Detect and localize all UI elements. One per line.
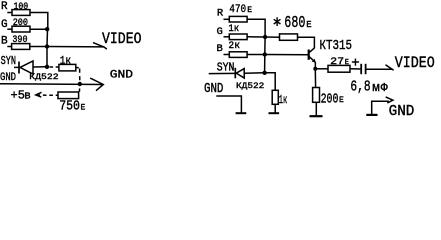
- wire resistor 200 to bus: [30, 28, 47, 30]
- wire bus segment G to B: [46, 29, 49, 46]
- wire SYN input to diode: [209, 72, 236, 74]
- wire resistor 1k to ground: [274, 104, 276, 113]
- svg-text:Ф: Ф: [381, 82, 388, 95]
- wire resistor 1k to bus: [247, 36, 265, 38]
- junction diode node: [45, 65, 49, 69]
- wire B input to resistor: [7, 46, 11, 48]
- svg-text:КД522: КД522: [236, 81, 264, 91]
- resistor 1k body: [59, 64, 76, 71]
- wire bus segment G to B: [264, 37, 266, 55]
- svg-text:GND: GND: [389, 104, 415, 120]
- resistor 750 body: [58, 92, 79, 99]
- junction G node on bus: [263, 35, 267, 39]
- wire dashed diode node to resistor 1k: [50, 66, 59, 68]
- capacitor C1 left plate: [360, 64, 362, 74]
- wire ground rail: [0, 83, 103, 86]
- transistor emitter stroke: [309, 56, 316, 62]
- wire capacitor to video arrow: [367, 68, 393, 70]
- svg-text:G: G: [1, 19, 8, 31]
- wire resistor 2k to bus: [247, 54, 265, 56]
- wire resistor 100 to bus corner: [30, 13, 48, 30]
- svg-text:1к: 1к: [60, 56, 71, 68]
- svg-text:E: E: [81, 104, 86, 113]
- resistor 27 body: [328, 65, 350, 72]
- ground bar under resistor 200: [310, 115, 323, 117]
- arrow head video output right: [386, 65, 394, 70]
- svg-text:2к: 2к: [228, 40, 240, 52]
- svg-text:GND: GND: [204, 82, 223, 97]
- wire GND label to ground symbol: [216, 96, 241, 113]
- diode VD2 KD522 cathode bar: [234, 68, 236, 79]
- resistor 680 body: [280, 34, 298, 40]
- ground bar under resistor 1k: [269, 112, 280, 114]
- svg-text:680: 680: [284, 13, 305, 32]
- wire diode junction to 1k drop corner: [265, 73, 276, 91]
- wire resistor 27 to capacitor: [350, 68, 360, 70]
- wire emitter down to junction: [314, 62, 316, 69]
- diode VD2 KD522 triangle: [236, 69, 244, 78]
- resistor 200 body (vertical): [313, 88, 320, 103]
- svg-text:B: B: [1, 36, 8, 48]
- wire diode to bus junction right: [244, 72, 264, 74]
- arrow head ground output right: [386, 97, 393, 103]
- junction diode node right: [262, 71, 266, 75]
- resistor 100 body: [12, 10, 30, 16]
- wire resistor 390 to bus: [30, 46, 47, 48]
- resistor 470 body: [229, 16, 247, 22]
- wire B input to resistor 2k: [224, 54, 230, 56]
- svg-text:200: 200: [321, 92, 339, 107]
- wire R input to resistor: [7, 12, 12, 14]
- wire G input to resistor 1k: [224, 36, 230, 38]
- wire video output line: [47, 46, 104, 48]
- junction B node on bus: [263, 52, 267, 56]
- svg-text:6,8: 6,8: [350, 79, 370, 96]
- wire SYN input to diode: [14, 66, 19, 68]
- selected-value asterisk mark: [274, 17, 281, 26]
- svg-text:R: R: [1, 1, 8, 13]
- svg-text:B: B: [217, 43, 223, 55]
- svg-text:1к: 1к: [279, 93, 288, 107]
- wire diode to bus junction: [33, 66, 47, 68]
- ground bar below GND label: [236, 112, 247, 114]
- wire dashed vertical 1k to ground rail: [79, 69, 81, 83]
- resistor 1k (SYN load) body vertical: [272, 90, 278, 104]
- resistor 200 body: [12, 26, 30, 32]
- svg-text:E: E: [339, 96, 344, 105]
- transistor emitter arrow head: [312, 59, 316, 63]
- svg-text:E: E: [306, 20, 311, 30]
- transistor VT1 KT315 base bar: [308, 50, 310, 60]
- wire bus segment B to diode junction: [46, 47, 48, 67]
- svg-text:+: +: [351, 55, 359, 71]
- wire resistor 200 to ground: [315, 102, 317, 115]
- wire resistor 680 to collector drop: [298, 37, 315, 48]
- wire bus to resistor 680: [265, 36, 279, 38]
- arrow head video output: [93, 43, 107, 50]
- svg-text:м: м: [372, 81, 380, 95]
- wire emitter junction down to resistor 200: [314, 69, 316, 88]
- svg-text:R: R: [217, 7, 224, 19]
- svg-text:в: в: [24, 90, 31, 102]
- svg-text:+5: +5: [11, 88, 25, 102]
- wire dashed resistor 1k to down-drop: [76, 67, 80, 69]
- resistor 1k (G) body: [229, 34, 247, 40]
- ground symbol far right bar: [366, 114, 377, 116]
- wire G input to resistor: [7, 28, 12, 30]
- arrow head ground output: [90, 78, 103, 91]
- wire base lead from bus to transistor: [265, 54, 308, 56]
- svg-text:200: 200: [13, 17, 28, 29]
- svg-text:GND: GND: [110, 70, 134, 82]
- diode VD1 KD522 cathode bar: [18, 62, 20, 74]
- svg-text:КТ315: КТ315: [320, 38, 353, 54]
- junction ground rail bias tap: [78, 82, 82, 86]
- wire emitter junction to resistor 27: [315, 68, 328, 70]
- svg-text:750: 750: [59, 99, 80, 115]
- wire bus segment B to diode junction: [264, 55, 266, 73]
- junction G on bus: [45, 27, 49, 31]
- wire dashed resistor 750 up to ground rail junction: [78, 86, 80, 92]
- svg-text:GND: GND: [0, 72, 16, 84]
- svg-text:VIDEO: VIDEO: [395, 54, 435, 72]
- transistor collector stroke: [309, 48, 315, 53]
- resistor 2k body: [229, 52, 247, 58]
- svg-text:SYN: SYN: [1, 54, 16, 68]
- diode VD1 KD522 triangle: [20, 61, 33, 74]
- svg-text:G: G: [217, 26, 223, 38]
- wire dashed +5V arrow to resistor 750: [37, 94, 59, 96]
- capacitor C1 right plate: [365, 64, 367, 74]
- svg-text:VIDEO: VIDEO: [102, 30, 142, 48]
- wire ground far right up and to arrow: [372, 101, 389, 115]
- junction emitter node: [313, 67, 317, 71]
- svg-text:390: 390: [12, 34, 27, 46]
- junction B on bus (video tap): [45, 44, 49, 48]
- svg-text:КД522: КД522: [29, 72, 58, 82]
- svg-text:E: E: [247, 6, 252, 15]
- wire resistor 470 to bus corner: [247, 19, 265, 37]
- svg-text:27: 27: [330, 57, 344, 68]
- resistor 390 body: [12, 44, 30, 50]
- arrow head +5V (points left): [36, 92, 42, 97]
- svg-text:470: 470: [229, 4, 246, 16]
- svg-text:SYN: SYN: [217, 61, 235, 74]
- svg-text:100: 100: [14, 1, 29, 13]
- wire R input to resistor 470: [224, 18, 230, 20]
